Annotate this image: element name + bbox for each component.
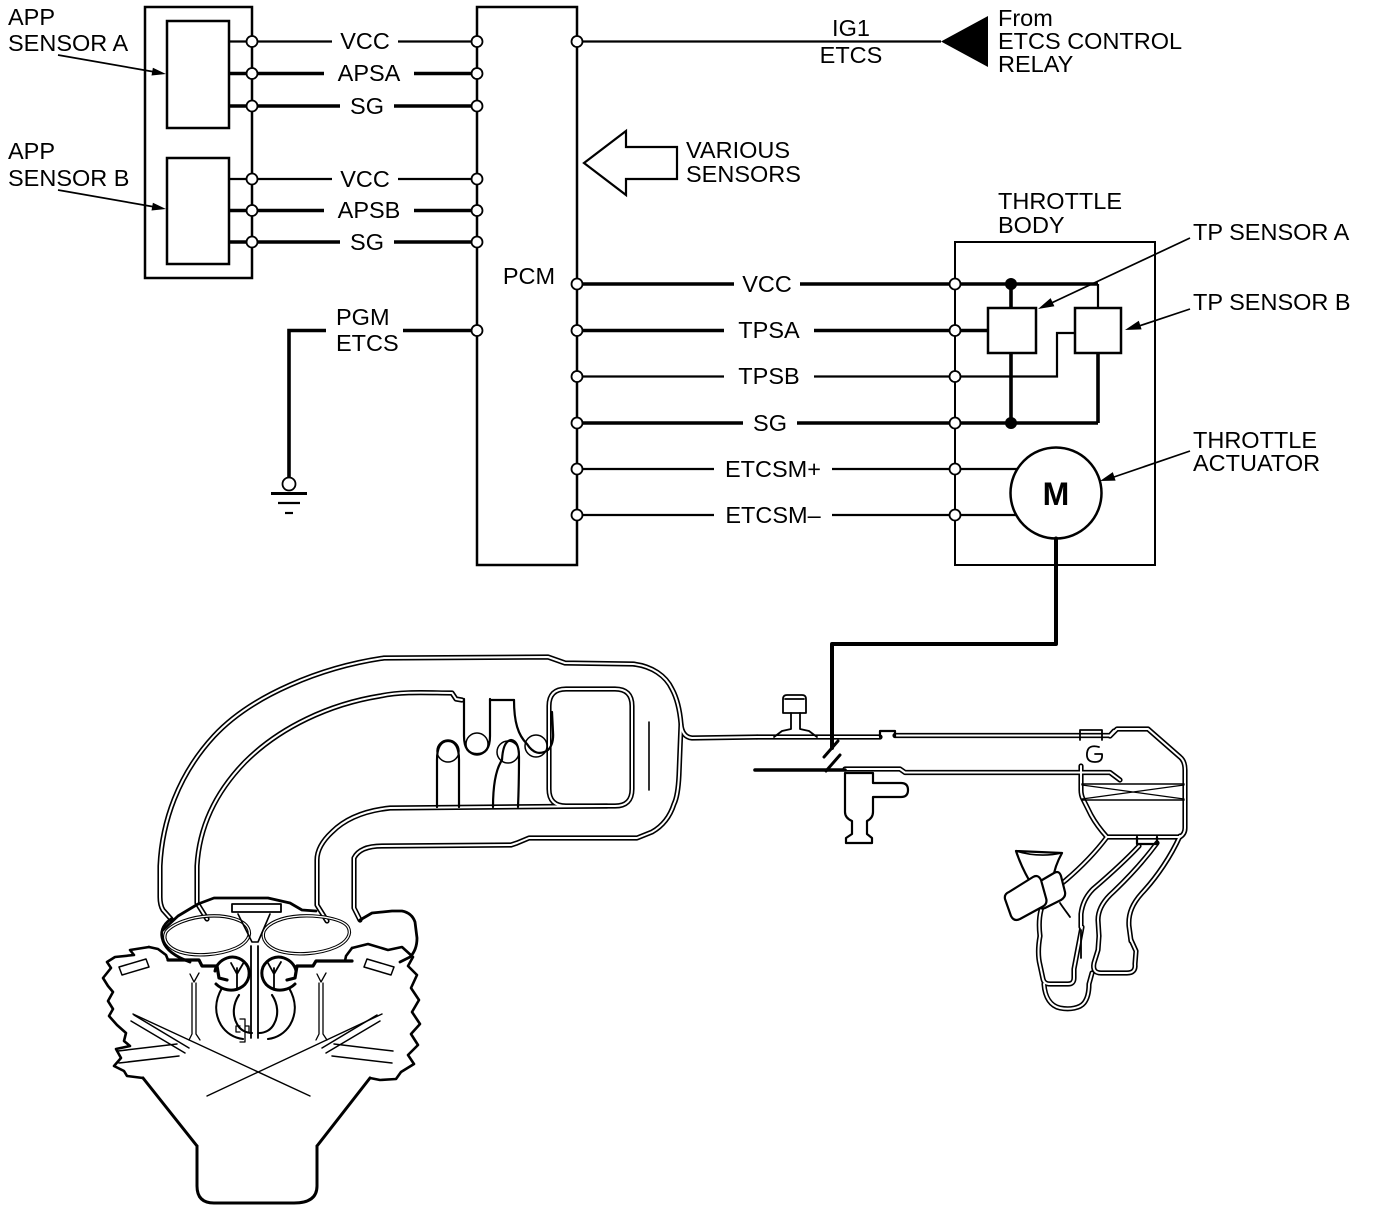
air cleaner bottom step — [1137, 837, 1157, 844]
PCM box — [477, 7, 577, 565]
neck outer and hose lower boundary — [354, 724, 681, 920]
intake port curl right — [262, 957, 296, 990]
APP sensor A inner box — [167, 21, 229, 128]
junction dot SG — [1005, 417, 1017, 429]
wire M to harness connector — [832, 539, 1056, 749]
plenum chamber left — [165, 916, 250, 955]
T fitting cap — [783, 695, 806, 713]
valve stem left — [189, 973, 200, 1040]
TP sensor B square — [1075, 308, 1121, 353]
wire VCC (TB) — [577, 282, 1098, 286]
svg-text:TP SENSOR A: TP SENSOR A — [1193, 219, 1350, 245]
engine right slope — [317, 1078, 370, 1146]
wire VCC (APP B) — [229, 178, 477, 180]
plenum outer left — [162, 919, 190, 962]
throttle body box — [955, 242, 1155, 565]
swan neck branch 2 left wall — [1098, 843, 1157, 936]
resonator circle 1 — [437, 740, 459, 762]
Y duct lower lobe — [1044, 973, 1092, 1009]
TP sensor A square — [988, 308, 1036, 353]
svg-text:M: M — [1043, 476, 1070, 512]
leader arrow to sensor B — [58, 190, 155, 207]
resonator circle 4 — [525, 735, 547, 757]
svg-text:APSB: APSB — [338, 197, 401, 223]
resonator circle 2 — [466, 733, 488, 755]
branch VCC to TP B — [1097, 284, 1099, 308]
tube 1 walls — [437, 741, 459, 807]
svg-text:TPSB: TPSB — [738, 363, 799, 389]
wire VCC (APP A) — [229, 40, 477, 42]
svg-text:PGM: PGM — [336, 304, 390, 330]
wire IG1 ETCS — [577, 40, 941, 42]
center bolt — [236, 1019, 249, 1042]
valve stem right — [316, 973, 327, 1040]
intake duct outer arc — [160, 657, 757, 919]
svg-text:SG: SG — [350, 93, 384, 119]
cover ribs right — [322, 959, 394, 1063]
resonator tube 4 s-curve — [514, 700, 553, 753]
valve fork left port — [231, 962, 244, 990]
swan neck branch 1 left wall — [1039, 837, 1107, 936]
right runner s-tube — [259, 988, 295, 1039]
svg-text:THROTTLE: THROTTLE — [998, 188, 1122, 214]
svg-text:VCC: VCC — [742, 271, 792, 297]
plenum chamber right — [263, 916, 349, 954]
head line left — [168, 960, 227, 980]
svg-text:VCC: VCC — [340, 166, 390, 192]
svg-text:APP: APP — [8, 138, 55, 164]
inlet trumpet — [1016, 851, 1062, 888]
connector circles APP side — [247, 36, 258, 47]
pipe heavy underline — [755, 768, 845, 772]
wire APSA — [229, 72, 477, 76]
crossing lines — [133, 1014, 382, 1096]
pipe bottom — [845, 769, 1120, 780]
trumpet to Y connection — [1060, 903, 1070, 917]
svg-text:VCC: VCC — [340, 28, 390, 54]
swan neck branch 1 right wall — [1081, 846, 1139, 927]
ground — [283, 478, 296, 491]
left valve cover — [103, 947, 149, 1078]
wire ETCSM+ — [577, 468, 1017, 470]
resonator box 2 tilted — [1034, 872, 1065, 909]
air cleaner body — [1081, 729, 1185, 837]
relay triangle — [941, 16, 988, 67]
pipe top — [757, 731, 1114, 737]
svg-text:SENSOR B: SENSOR B — [8, 165, 129, 191]
inner bend detail line — [648, 722, 650, 790]
center V below lid — [238, 914, 270, 942]
Y duct right leg — [1094, 936, 1136, 973]
T fitting stem — [774, 713, 817, 737]
hose clamp G — [1080, 730, 1102, 740]
plenum right shoulder — [360, 911, 417, 962]
center runner pair — [251, 946, 258, 1038]
svg-text:RELAY: RELAY — [998, 51, 1074, 77]
throttle actuator motor M — [1011, 448, 1102, 539]
svg-text:TP SENSOR B: TP SENSOR B — [1193, 289, 1351, 315]
svg-text:ETCS: ETCS — [336, 330, 399, 356]
svg-text:BODY: BODY — [998, 212, 1065, 238]
junction dot VCC — [1005, 278, 1017, 290]
various sensors arrow — [584, 131, 677, 195]
purge valve body — [845, 773, 908, 843]
connector circles PCM right / TB left — [572, 279, 583, 290]
svg-text:SG: SG — [350, 229, 384, 255]
svg-text:TPSA: TPSA — [738, 317, 800, 343]
plenum lid rect — [232, 904, 281, 912]
intake port curl left — [215, 957, 249, 990]
intake duct inner arc — [197, 693, 462, 919]
right valve cover — [352, 944, 420, 1080]
resonator tube 2 — [464, 699, 490, 754]
duct bottom contour to hose bend — [317, 806, 607, 921]
svg-text:SENSOR A: SENSOR A — [8, 30, 128, 56]
branch SG to TP B — [1096, 353, 1100, 423]
wire TPSB — [577, 333, 1075, 377]
svg-text:ETCS: ETCS — [820, 42, 883, 68]
ART — [103, 539, 1185, 1204]
resonator circle 3 — [497, 741, 519, 763]
cover ribs left — [118, 959, 189, 1063]
oil pan — [197, 1146, 317, 1203]
leader arrow to sensor A — [58, 55, 155, 72]
branch VCC to TP A — [1009, 284, 1013, 308]
svg-text:SENSORS: SENSORS — [686, 161, 801, 187]
svg-text:SG: SG — [753, 410, 787, 436]
pipe top clip bump — [880, 731, 895, 737]
resonator ledge — [490, 699, 514, 701]
APP sensor outer box — [145, 7, 252, 278]
wire SG (TB) — [577, 421, 1098, 425]
branch SG to TP A — [1009, 353, 1013, 423]
APP sensor B inner box — [167, 158, 229, 264]
wire SG (APP B) — [229, 240, 477, 244]
resonator box 1 tilted — [1005, 876, 1047, 920]
wire PGM ETCS — [289, 331, 326, 478]
wire APSB — [229, 209, 477, 213]
white cores for doubled outlines — [160, 657, 757, 919]
tube 3 s-walls — [493, 740, 519, 807]
wire SG (APP A) — [229, 104, 477, 108]
svg-text:ETCSM–: ETCSM– — [725, 502, 821, 528]
wire TPSA — [577, 329, 988, 333]
Y duct crotch fold — [1080, 930, 1082, 958]
svg-text:APSA: APSA — [338, 60, 401, 86]
harness connector symbol — [824, 741, 838, 757]
Y duct left leg — [1039, 927, 1083, 984]
resonator chamber — [549, 689, 632, 806]
svg-text:ACTUATOR: ACTUATOR — [1193, 450, 1320, 476]
wire ETCSM- — [577, 514, 1016, 516]
valve fork right port — [268, 962, 281, 990]
svg-text:IG1: IG1 — [832, 15, 870, 41]
head line right — [287, 961, 352, 980]
svg-text:ETCSM+: ETCSM+ — [725, 456, 821, 482]
plenum top — [163, 898, 316, 930]
svg-text:APP: APP — [8, 4, 55, 30]
svg-text:PCM: PCM — [503, 263, 555, 289]
air filter element — [1082, 784, 1184, 800]
trumpet inner line — [1016, 851, 1062, 855]
swan neck branch 2 right wall — [1129, 836, 1180, 941]
engine left slope — [143, 1078, 197, 1146]
svg-text:VARIOUS: VARIOUS — [686, 137, 790, 163]
left runner s-tube — [216, 988, 252, 1039]
